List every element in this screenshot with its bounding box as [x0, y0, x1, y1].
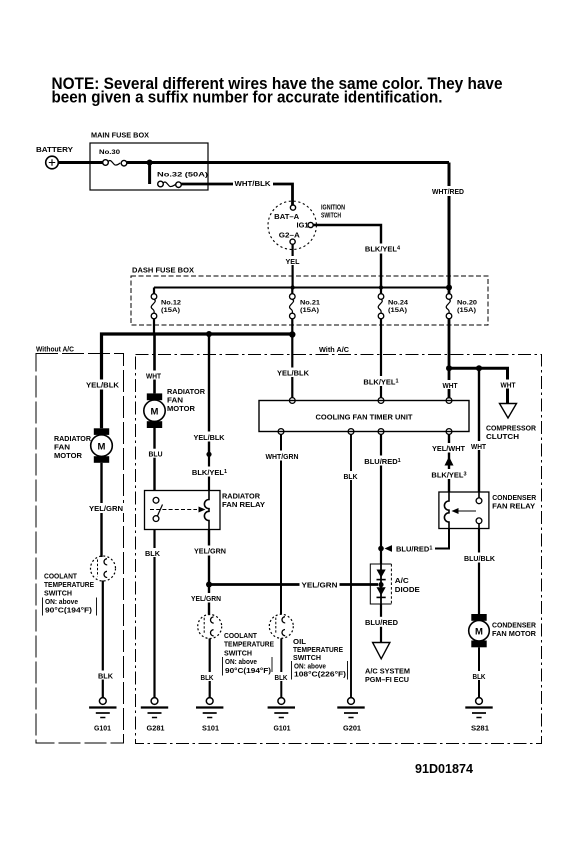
condenser fan relay U3	[439, 492, 537, 529]
wire BLU motor to relay	[146, 428, 165, 491]
svg-text:MOTOR: MOTOR	[167, 404, 196, 413]
svg-text:M: M	[475, 627, 483, 638]
wire YEL/WHT timer to arrow	[431, 434, 468, 492]
wire WHT/GRN timer to oil temperature switch	[264, 434, 301, 614]
svg-text:BLK/YEL1: BLK/YEL1	[192, 468, 227, 477]
wire YEL/BLK without A/C	[84, 380, 121, 390]
radiator fan motor (without A/C)	[54, 428, 112, 463]
fuse No.32 (50A)	[157, 172, 208, 188]
junction at fuse 32 branch	[147, 160, 153, 166]
wire WHT/RED	[430, 163, 467, 288]
wire WHT label at compressor clutch drop	[499, 380, 517, 390]
wire branch bus below fuses	[102, 334, 293, 428]
A/C diode D1	[370, 564, 420, 604]
svg-text:FAN RELAY: FAN RELAY	[222, 500, 265, 509]
svg-text:BLK/YEL3: BLK/YEL3	[431, 471, 466, 480]
svg-text:FAN RELAY: FAN RELAY	[492, 501, 535, 510]
dash fuse box	[131, 266, 488, 326]
battery B1	[36, 145, 73, 169]
wire BLU/RED1 condenser relay coil to diode junction	[385, 529, 450, 554]
NOTE text	[52, 75, 503, 107]
svg-text:90°C(194°F): 90°C(194°F)	[45, 606, 93, 615]
svg-text:WHT/BLK: WHT/BLK	[235, 179, 272, 188]
svg-text:S281: S281	[471, 726, 489, 733]
Without A/C boundary box	[36, 345, 124, 744]
svg-text:YEL/WHT: YEL/WHT	[432, 444, 465, 453]
wire BLK/YEL1 fuse24 to timer	[362, 376, 401, 386]
wire BLU/RED diode to ECU	[363, 604, 400, 643]
svg-text:With A/C: With A/C	[319, 345, 350, 354]
svg-text:IG1: IG1	[297, 220, 309, 229]
svg-text:BLK: BLK	[473, 672, 486, 681]
svg-text:COOLING FAN TIMER UNIT: COOLING FAN TIMER UNIT	[316, 413, 413, 422]
svg-text:BLK: BLK	[145, 549, 161, 558]
svg-text:BLU/RED1: BLU/RED1	[364, 457, 400, 466]
svg-text:SWITCH: SWITCH	[321, 212, 341, 219]
svg-text:(15A): (15A)	[300, 307, 319, 314]
svg-text:WHT: WHT	[471, 442, 486, 451]
svg-text:WHT: WHT	[501, 381, 516, 390]
wire BLU/RED1 timer to A/C diode	[364, 434, 402, 564]
wire BLU/BLK condenser relay to condenser fan motor	[462, 529, 496, 615]
svg-text:DIODE: DIODE	[395, 585, 420, 594]
svg-text:YEL/BLK: YEL/BLK	[194, 433, 226, 442]
svg-text:G101: G101	[274, 726, 291, 733]
svg-text:WHT: WHT	[443, 381, 458, 390]
svg-text:M: M	[151, 407, 159, 418]
node YEL/BLK branch	[206, 331, 212, 337]
svg-text:YEL/BLK: YEL/BLK	[86, 381, 120, 390]
ground G201	[337, 698, 364, 733]
wire BLK timer to ground G201	[341, 434, 361, 697]
node BLU/RED1 junction	[378, 546, 384, 552]
wire YEL/BLK fuse21 to timer	[275, 335, 311, 398]
svg-text:YEL/GRN: YEL/GRN	[191, 594, 221, 603]
oil temperature switch	[269, 614, 347, 679]
svg-text:No.20: No.20	[457, 300, 477, 307]
node YEL/GRN junction	[206, 582, 212, 588]
wire YEL/BLK branch to splice	[191, 334, 228, 454]
fuse No.30	[99, 149, 127, 166]
cooling fan timer unit U2	[259, 398, 469, 435]
main fuse box	[90, 131, 208, 191]
wire battery to fuse No.30	[59, 161, 103, 164]
svg-text:SWITCH: SWITCH	[224, 648, 252, 657]
svg-text:BLU/RED: BLU/RED	[365, 618, 399, 627]
svg-text:BATTERY: BATTERY	[36, 145, 73, 154]
wire BLK coolant switch to ground S101	[198, 639, 217, 698]
wire YEL/GRN relay to junction	[192, 530, 228, 615]
wire IG1 BLK/YEL4	[313, 225, 402, 288]
ignition switch	[268, 201, 345, 249]
wire YEL/GRN without A/C	[87, 463, 125, 557]
svg-text:WHT: WHT	[146, 372, 161, 381]
svg-text:No.32 (50A): No.32 (50A)	[157, 172, 208, 179]
svg-text:BLK: BLK	[344, 472, 359, 481]
svg-text:BLK/YEL1: BLK/YEL1	[363, 377, 398, 386]
svg-text:PGM–FI ECU: PGM–FI ECU	[365, 675, 409, 684]
node BLK/YEL4 to bus	[379, 285, 383, 289]
svg-text:MOTOR: MOTOR	[54, 451, 83, 460]
svg-text:G2–A: G2–A	[279, 230, 301, 239]
svg-text:No.12: No.12	[161, 300, 181, 307]
svg-text:DASH FUSE BOX: DASH FUSE BOX	[132, 266, 194, 275]
coolant temperature switch (with A/C)	[198, 615, 274, 676]
svg-text:YEL/BLK: YEL/BLK	[277, 369, 310, 378]
compressor clutch	[486, 404, 537, 442]
svg-text:No.21: No.21	[300, 300, 320, 307]
svg-text:FAN MOTOR: FAN MOTOR	[492, 629, 537, 638]
svg-text:BLK/YEL4: BLK/YEL4	[365, 245, 401, 254]
wire BLK relay to ground G281	[145, 530, 165, 698]
node WHT branch at x479	[476, 365, 482, 371]
ground G101 (without A/C)	[89, 698, 116, 733]
svg-text:BLU: BLU	[149, 450, 163, 459]
svg-text:been given a suffix number for: been given a suffix number for accurate …	[52, 89, 443, 107]
splice node YEL/BLK to BLK/YEL1	[206, 452, 211, 457]
svg-text:YEL: YEL	[286, 257, 300, 266]
node fuse 21 to branch bus	[289, 331, 295, 337]
wire to fuse No.32	[148, 163, 151, 185]
svg-text:No.30: No.30	[99, 149, 120, 156]
fuse No.21 (15A)	[290, 288, 321, 336]
wire branch WHT to compressor clutch	[449, 368, 508, 403]
wire BLK condenser motor to ground S281	[470, 647, 489, 697]
fuse No.12 (15A)	[151, 288, 181, 335]
fuse No.20 (15A)	[446, 288, 477, 399]
A/C system PGM-FI ECU	[365, 643, 410, 685]
arrow up on YEL/WHT wire	[445, 457, 454, 466]
wire BLK/YEL1 to relay coil	[192, 454, 230, 490]
svg-text:IGNITION: IGNITION	[321, 205, 345, 212]
svg-text:WHT/RED: WHT/RED	[432, 187, 465, 196]
svg-text:(15A): (15A)	[161, 307, 180, 314]
wire WHT fuse12 to radiator fan motor	[145, 334, 164, 393]
svg-text:(15A): (15A)	[457, 307, 476, 314]
svg-text:90°C(194°F): 90°C(194°F)	[225, 666, 272, 675]
svg-text:CLUTCH: CLUTCH	[486, 432, 519, 441]
wire YEL/GRN junction to diode	[209, 579, 378, 590]
fuse No.24 (15A)	[378, 288, 408, 399]
ground G281	[141, 698, 168, 733]
svg-text:YEL/GRN: YEL/GRN	[302, 581, 338, 590]
ground G101 (oil switch)	[268, 698, 295, 733]
condenser fan motor	[469, 614, 537, 647]
svg-text:G201: G201	[343, 726, 361, 733]
node YEL to bus	[290, 285, 294, 289]
svg-text:COOLANT: COOLANT	[224, 631, 257, 640]
svg-text:WHT/GRN: WHT/GRN	[266, 452, 299, 461]
svg-text:YEL/GRN: YEL/GRN	[89, 504, 123, 513]
svg-text:Without A/C: Without A/C	[36, 345, 75, 354]
svg-text:A/C: A/C	[395, 576, 410, 585]
With A/C boundary box	[136, 345, 542, 744]
svg-text:108°C(226°F): 108°C(226°F)	[294, 670, 347, 679]
ground S281	[465, 698, 492, 733]
wire WHT fuse20 to timer	[441, 380, 459, 390]
svg-text:No.24: No.24	[388, 300, 408, 307]
coolant temperature switch (without A/C)	[43, 556, 116, 616]
svg-text:YEL/GRN: YEL/GRN	[194, 547, 226, 556]
svg-text:BLU/RED1: BLU/RED1	[396, 545, 432, 554]
svg-text:TEMPERATURE: TEMPERATURE	[224, 640, 274, 649]
svg-text:S101: S101	[202, 726, 219, 733]
wire BLK/YEL3 label to condenser relay coil	[431, 469, 469, 480]
wire fuse No.30 to WHT/RED corner	[127, 161, 449, 164]
svg-text:BLK: BLK	[98, 672, 114, 681]
ground S101	[196, 698, 223, 733]
svg-text:BLK: BLK	[275, 673, 288, 682]
bus wire inside dash fuse box	[154, 287, 449, 289]
node WHT/RED to bus	[446, 285, 452, 291]
wire BLK without A/C	[95, 581, 116, 698]
radiator fan relay U1	[145, 491, 266, 530]
wire WHT/BLK fuse32 to ignition switch	[181, 178, 292, 206]
svg-text:(15A): (15A)	[388, 307, 407, 314]
svg-text:M: M	[98, 442, 106, 453]
svg-text:G281: G281	[147, 726, 165, 733]
radiator fan motor (with A/C)	[144, 387, 206, 428]
wire WHT to condenser fan relay contact	[470, 368, 489, 492]
svg-text:MAIN FUSE BOX: MAIN FUSE BOX	[91, 131, 149, 140]
wire YEL/GRN label above coolant switch	[190, 593, 224, 603]
svg-text:ON: above: ON: above	[225, 657, 257, 666]
svg-text:91D01874: 91D01874	[415, 761, 474, 776]
node WHT branch at x449	[446, 365, 452, 371]
wire G2 YEL	[284, 244, 302, 287]
svg-text:BLK: BLK	[201, 673, 214, 682]
svg-text:BLU/BLK: BLU/BLK	[464, 554, 496, 563]
wire BLK oil switch to ground G101	[272, 638, 291, 697]
svg-text:G101: G101	[94, 726, 111, 733]
